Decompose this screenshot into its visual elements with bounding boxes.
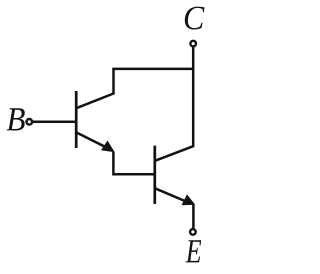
terminal label E: [186, 240, 202, 262]
wire Q1 emitter to Q2 base: [113, 152, 154, 174]
wire B to Q1 base: [32, 121, 75, 124]
terminal circle C: [190, 41, 196, 47]
terminal circle E: [190, 229, 196, 235]
terminal label B: [7, 108, 25, 130]
transistor Q1 base bar: [75, 91, 78, 148]
wire Q2 emitter to terminal E: [192, 205, 195, 230]
wire Q1 collector to node C: [114, 69, 194, 95]
transistor Q2 base bar: [153, 146, 156, 204]
wire node C vertical: [192, 46, 195, 147]
transistor Q1 collector line: [76, 94, 114, 109]
terminal label C: [185, 7, 205, 30]
transistor Q2 collector line: [155, 146, 194, 161]
transistor Q1 emitter line with arrow: [76, 132, 115, 152]
terminal circle B: [27, 119, 33, 125]
transistor Q2 emitter line with arrow: [155, 188, 196, 205]
